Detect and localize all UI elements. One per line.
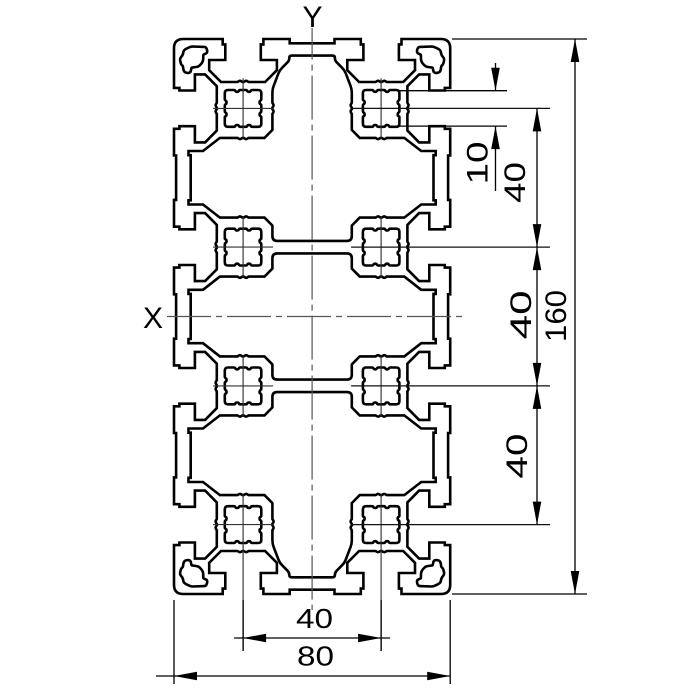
screw hole G at (20,140): [225, 506, 261, 543]
extension lines bottom: [174, 600, 450, 684]
cavity rows 3-4 with bottom screw channel: [189, 392, 436, 577]
screw hole B at (60,20): [363, 90, 400, 127]
node B horizontal centerline / extension: [351, 107, 550, 109]
dimension 160 arrows: [571, 39, 580, 62]
node D centerlines: [380, 217, 382, 277]
screw hole A at (20,20): [225, 90, 261, 127]
extension lines right side: [397, 39, 587, 594]
svg-text:40: 40: [505, 290, 538, 339]
corner cutout top-left: [180, 47, 207, 73]
cavity rows 2-3: [189, 253, 436, 379]
dimension 40 chain arrows: [533, 108, 542, 131]
node G centerlines: [242, 495, 244, 651]
corner cutout top-right: [417, 47, 444, 73]
corner cutout bottom-right: [417, 560, 444, 586]
node C centerlines: [242, 217, 244, 277]
screw hole H at (60,140): [363, 506, 400, 543]
node E centerlines: [242, 356, 244, 416]
node F horizontal centerline / extension: [351, 385, 550, 387]
svg-text:X: X: [143, 302, 163, 335]
dimension 160 line: [574, 39, 576, 594]
screw hole F at (60,100): [363, 368, 400, 405]
profile outer contour with 12 T-slots: [174, 39, 450, 594]
node D horizontal centerline / extension: [351, 246, 550, 248]
node G horizontal centerline: [213, 524, 273, 526]
node E horizontal centerline: [213, 385, 273, 387]
screw hole E at (20,100): [225, 368, 261, 405]
node C horizontal centerline: [213, 246, 273, 248]
svg-text:Y: Y: [302, 1, 322, 34]
screw hole C at (20,60): [225, 229, 261, 266]
node H centerlines: [380, 495, 382, 651]
Y axis centerline: [311, 28, 313, 610]
svg-text:160: 160: [540, 290, 573, 342]
svg-text:40: 40: [296, 603, 333, 634]
svg-text:10: 10: [462, 142, 495, 185]
dimension 10 line: [495, 63, 497, 191]
cavity rows 1-2 with top screw channel: [189, 56, 436, 241]
dimension 80 arrows: [174, 672, 197, 681]
svg-text:40: 40: [499, 162, 532, 203]
dimension 80 line: [156, 675, 450, 677]
node A horizontal centerline: [213, 107, 273, 109]
dimension 10 arrows: [491, 68, 500, 91]
node B centerlines: [380, 78, 382, 138]
X axis centerline: [167, 316, 462, 318]
node F centerlines: [380, 356, 382, 416]
corner cutout bottom-left: [180, 560, 207, 586]
dimension 40 bottom line: [234, 637, 390, 639]
node H horizontal centerline / extension: [351, 524, 550, 526]
screw hole D at (60,60): [363, 229, 400, 266]
svg-text:40: 40: [501, 434, 534, 479]
dimension 40 bottom arrows: [243, 634, 266, 643]
dimension 40 chain line: [536, 108, 538, 524]
node A centerlines: [242, 78, 244, 138]
svg-text:80: 80: [297, 641, 334, 672]
